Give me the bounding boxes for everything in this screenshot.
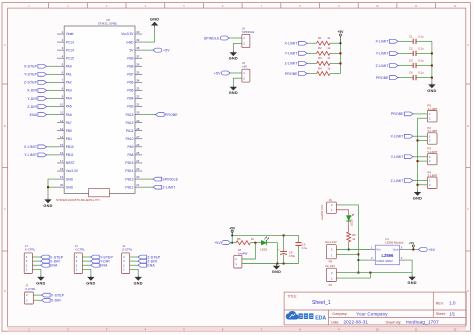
resistor R4 1k with PROBE netflag [285, 66, 341, 76]
svg-text:X-LIMIT: X-LIMIT [284, 42, 298, 46]
resistor R6 1k [347, 232, 357, 242]
node +5V netflag at U6 pin38 [142, 48, 170, 52]
svg-text:GND: GND [126, 40, 134, 44]
pin 10 PA5 U6 left [57, 103, 72, 109]
svg-text:Vin: Vin [376, 248, 380, 252]
wire J6 pin2 to ground [233, 43, 242, 51]
svg-text:25: 25 [136, 151, 140, 155]
connector J6 SPINDLE [242, 26, 254, 47]
svg-text:Y-LIMIT: Y-LIMIT [24, 153, 38, 157]
svg-text:19: 19 [60, 175, 64, 179]
pin 36 PB8 U6 right [127, 62, 142, 68]
wire P1 pin1 jog up [336, 273, 370, 279]
pin 32 PB4 U6 right [127, 95, 142, 101]
svg-text:R2: R2 [318, 46, 322, 50]
svg-text:15: 15 [60, 143, 64, 147]
svg-text:GND: GND [427, 89, 436, 93]
EasyEDA logo [286, 311, 327, 321]
svg-text:36: 36 [136, 62, 140, 66]
wire P6 pin2 to module Vin [336, 249, 369, 251]
svg-text:33: 33 [136, 87, 140, 91]
ground below limit connectors [413, 191, 422, 201]
pin 7 PA2 U6 left [57, 78, 72, 84]
wire bottom GND rail [242, 263, 299, 265]
svg-text:Vout: Vout [393, 248, 399, 252]
svg-text:Sheet:: Sheet: [436, 312, 446, 316]
svg-text:Y-DIR: Y-DIR [27, 97, 37, 101]
pin 1 U1 [370, 245, 376, 249]
wire R6 down to Vin rail [348, 242, 350, 251]
connector P3 Y-LIMIT [427, 147, 437, 165]
pin 14 PB1 U6 left [57, 135, 72, 141]
svg-text:Vout 24V: Vout 24V [325, 240, 337, 244]
svg-text:C4: C4 [409, 71, 413, 75]
svg-text:GND: GND [43, 204, 52, 208]
svg-text:PB3: PB3 [127, 105, 133, 109]
svg-text:STM32F103C8T6-BLUEPILL!!!!!!: STM32F103C8T6-BLUEPILL!!!!!! [56, 198, 100, 202]
wire U1 GND2 down to ground [405, 260, 412, 275]
wire P1 pin2 rail to module ground [336, 272, 412, 274]
pin 21 PB12 U6 right [125, 183, 142, 189]
node Y-DIR netflag at J2 [82, 259, 110, 263]
svg-text:Z-STEP: Z-STEP [24, 81, 38, 85]
svg-text:R1: R1 [318, 36, 322, 40]
svg-text:23: 23 [136, 167, 140, 171]
node ENA netflag at J4 [130, 263, 156, 267]
node X-STEP netflag at U6 [24, 64, 57, 68]
svg-text:1/1: 1/1 [449, 311, 455, 316]
svg-text:Z-LIMIT: Z-LIMIT [391, 179, 405, 183]
node SPINDLE netflag to J6 pin1 [204, 36, 242, 40]
pin 40 Vcc3.3V U6 right [121, 30, 142, 36]
connector P1 Vin 24V [325, 264, 336, 287]
svg-text:+: + [278, 247, 280, 251]
svg-text:31: 31 [136, 103, 140, 107]
svg-text:C2: C2 [409, 46, 413, 50]
wire +5V bus of resistor network [340, 36, 342, 73]
svg-text:Y-STEP: Y-STEP [24, 73, 37, 77]
ground below J4 [134, 276, 143, 286]
pin 9 PA4 U6 left [57, 95, 72, 101]
pin 33 PB5 U6 right [127, 87, 142, 93]
ground below J1 [36, 276, 45, 286]
svg-text:32: 32 [136, 95, 140, 99]
capacitor C5 0.1u [295, 235, 307, 263]
capacitor C6 470u electrolytic [278, 235, 296, 263]
svg-text:PA12: PA12 [126, 121, 134, 125]
resistor R2 1k with Y-LIMIT netflag [285, 46, 341, 56]
svg-text:SPINDLE: SPINDLE [242, 30, 254, 34]
svg-text:+5V: +5V [338, 30, 345, 34]
svg-text:PB5: PB5 [127, 89, 133, 93]
svg-text:P1: P1 [329, 283, 333, 287]
svg-text:PROBE: PROBE [165, 113, 178, 117]
svg-text:GND: GND [408, 281, 417, 285]
node PROBE netflag at U6 pin30 [142, 113, 178, 117]
svg-text:Sheet_1: Sheet_1 [312, 300, 331, 306]
svg-text:0.1u: 0.1u [418, 71, 424, 75]
wire P4 pin2 to GND bus [418, 184, 428, 186]
svg-text:PA10: PA10 [126, 137, 134, 141]
svg-text:38: 38 [136, 46, 140, 50]
node Y-LIMIT netflag at U6 [24, 153, 57, 157]
svg-text:PB14: PB14 [125, 169, 133, 173]
pin 37 PB9 U6 right [127, 54, 142, 60]
svg-text:Z-DIR: Z-DIR [27, 105, 37, 109]
svg-text:Date:: Date: [331, 320, 339, 324]
ground of LED circuit [272, 264, 281, 274]
power flag +5V above resistor network [338, 30, 345, 36]
pin 19 GND U6 left [57, 175, 74, 181]
wire J2 pin1 to ground [82, 269, 91, 275]
svg-text:PB9: PB9 [127, 56, 133, 60]
node Z-LIMIT netflag at U6 pin21 [142, 185, 176, 189]
svg-text:37: 37 [136, 54, 140, 58]
pin 17 NRST U6 left [57, 159, 75, 165]
LED LED2 [346, 214, 354, 226]
svg-text:0.1u: 0.1u [418, 59, 424, 63]
svg-text:GND: GND [229, 57, 238, 61]
pin 20 GND U6 left [57, 183, 74, 189]
ground below U6 [43, 198, 52, 208]
pin 12 PA7 U6 left [57, 119, 72, 125]
svg-text:PB11: PB11 [66, 153, 74, 157]
svg-text:PB6: PB6 [127, 81, 133, 85]
svg-text:LedPW 24V: LedPW 24V [320, 205, 324, 220]
svg-text:+5V: +5V [428, 248, 435, 252]
svg-text:GND: GND [413, 196, 422, 200]
svg-text:C1: C1 [409, 34, 413, 38]
svg-text:Y-LIMIT: Y-LIMIT [376, 52, 390, 56]
svg-text:0.1u: 0.1u [418, 34, 424, 38]
svg-text:29: 29 [136, 119, 140, 123]
svg-text:0.1u: 0.1u [302, 246, 308, 250]
svg-text:X-LIMIT: X-LIMIT [24, 145, 38, 149]
svg-text:ENA: ENA [147, 264, 155, 268]
svg-text:GND1 GND2: GND1 GND2 [376, 259, 393, 263]
ground below J6 [229, 51, 238, 61]
connector J7 X-CTRL [25, 284, 36, 304]
svg-text:SPINDLE: SPINDLE [162, 177, 178, 181]
svg-text:PB15: PB15 [125, 161, 133, 165]
svg-text:B: B [467, 124, 469, 128]
pin 23 PB14 U6 right [125, 167, 142, 173]
svg-text:GND: GND [150, 18, 159, 22]
pin 30 PA15 U6 right [126, 111, 143, 117]
pin 11 PA6 U6 left [57, 111, 72, 117]
pin 3 PC14 U6 left [57, 46, 74, 52]
wire U6 pin39 to top ground [142, 27, 154, 42]
node Y-STEP netflag at J2 [82, 255, 113, 259]
node X-DIR netflag at J7 [33, 298, 61, 302]
LED LED1 [260, 236, 269, 251]
svg-text:PA7: PA7 [66, 121, 72, 125]
wire top rail to C5/C6 [232, 234, 298, 236]
pin 13 PB0 U6 left [57, 127, 72, 133]
svg-text:PA3: PA3 [66, 89, 72, 93]
resistor R5 1k [236, 237, 255, 245]
pin 25 PA8 U6 right [128, 151, 143, 157]
svg-text:R4: R4 [318, 66, 322, 70]
svg-text:GND: GND [134, 281, 143, 285]
svg-text:PA2: PA2 [66, 81, 72, 85]
svg-text:GND: GND [66, 177, 74, 181]
svg-text:X-DIR: X-DIR [27, 89, 37, 93]
wire U1 Vout to +5V [405, 249, 418, 251]
svg-text:12: 12 [60, 119, 64, 123]
svg-text:PA0: PA0 [66, 64, 72, 68]
svg-text:0.1u: 0.1u [418, 46, 424, 50]
svg-text:Company:: Company: [332, 312, 348, 316]
connector P2 X-LIMIT [427, 126, 438, 144]
node Z-DIR netflag at J4 [130, 259, 158, 263]
svg-text:+5V: +5V [229, 226, 236, 230]
svg-text:PB13: PB13 [125, 177, 133, 181]
connector P4 Z-LIMIT [427, 170, 437, 188]
svg-text:PB1: PB1 [66, 137, 72, 141]
pin 4 PC15 U6 left [57, 54, 74, 60]
svg-text:ENA: ENA [50, 264, 58, 268]
svg-text:PC14: PC14 [66, 48, 74, 52]
pin 6 PA1 U6 left [57, 70, 72, 76]
svg-text:EDA: EDA [315, 315, 326, 321]
svg-text:L2596: L2596 [381, 253, 394, 258]
node ENA netflag at J1 [32, 263, 58, 267]
pin 18 Vcc3.3V U6 left [57, 167, 79, 173]
svg-text:PB12: PB12 [125, 185, 133, 189]
svg-text:L2596 Module: L2596 Module [385, 241, 404, 245]
connector J4 Z-CTRL [122, 244, 133, 274]
wire J8 pin2 up to LED net [242, 243, 256, 259]
node +5V netflag into LED circuit [214, 241, 236, 245]
svg-text:16: 16 [60, 151, 64, 155]
node X-LIMIT netflag to P2 pin1 [390, 134, 427, 138]
svg-text:REV:: REV: [436, 301, 444, 305]
svg-text:Z-LIMIT: Z-LIMIT [285, 62, 299, 66]
node +5V netflag at U1 output [418, 248, 435, 252]
ground below cap network [427, 83, 436, 93]
svg-text:C: C [467, 207, 469, 211]
resistor R1 1k with X-LIMIT netflag [284, 36, 340, 46]
node X-STEP netflag at J1 [32, 255, 63, 259]
svg-text:LED1: LED1 [260, 247, 267, 251]
svg-text:Y-CTRL: Y-CTRL [75, 248, 86, 252]
pin 39 GND U6 right [126, 38, 142, 44]
resistor R3 1k with Z-LIMIT netflag [285, 56, 341, 65]
svg-text:PROBE: PROBE [391, 112, 404, 116]
svg-text:1.0: 1.0 [449, 301, 456, 306]
wire J1 pin1 to ground [32, 269, 41, 275]
svg-text:PB10: PB10 [66, 145, 74, 149]
svg-text:Vcc3.3V: Vcc3.3V [66, 169, 79, 173]
svg-text:34: 34 [136, 78, 140, 82]
svg-text:PB8: PB8 [127, 64, 133, 68]
power flag +5V at U1 output [409, 241, 415, 250]
node Y-DIR netflag at U6 [27, 97, 57, 101]
svg-text:Z-LIMIT: Z-LIMIT [376, 64, 390, 68]
capacitor C2 0.1u with Y-LIMIT netflag [376, 46, 432, 56]
svg-text:GND: GND [86, 281, 95, 285]
svg-text:30: 30 [136, 111, 140, 115]
svg-text:PA5: PA5 [66, 105, 72, 109]
svg-text:PA8: PA8 [128, 153, 134, 157]
svg-text:Vbatt: Vbatt [66, 32, 74, 36]
connector P5 X-LIMIT [427, 104, 438, 122]
svg-text:11: 11 [60, 111, 63, 115]
svg-text:R3: R3 [318, 56, 322, 60]
svg-text:PA11: PA11 [126, 129, 134, 133]
svg-text:Your Company: Your Company [356, 312, 388, 317]
svg-text:+5V: +5V [242, 65, 247, 69]
svg-text:ENA: ENA [30, 113, 38, 117]
pin 38 5V U6 right [129, 46, 142, 52]
wire LED1 to GND rail [266, 243, 277, 264]
svg-text:X-DIR: X-DIR [51, 299, 61, 303]
node Z-DIR netflag at U6 [27, 105, 57, 109]
svg-text:+5V: +5V [214, 241, 221, 245]
svg-text:22: 22 [136, 175, 140, 179]
svg-text:Vin 24V: Vin 24V [325, 264, 335, 268]
pin 2 U1 [370, 256, 376, 260]
svg-text:mediuag_1707: mediuag_1707 [406, 320, 439, 325]
pin 8 PA3 U6 left [57, 87, 72, 93]
svg-text:ENA: ENA [100, 264, 108, 268]
svg-text:X-LIMIT: X-LIMIT [375, 40, 389, 44]
svg-text:+5V: +5V [163, 48, 170, 52]
svg-text:35: 35 [136, 70, 140, 74]
node X-DIR netflag at U6 [27, 89, 57, 93]
pin 2 PC13 U6 left [57, 38, 74, 44]
svg-text:D: D [4, 289, 6, 293]
wire GND bus of cap network [431, 41, 433, 83]
connector P6 Vout 24V [325, 240, 337, 263]
svg-text:18: 18 [60, 167, 64, 171]
svg-text:SPINDLE: SPINDLE [204, 36, 220, 40]
svg-text:PA6: PA6 [66, 113, 72, 117]
svg-text:17: 17 [60, 159, 64, 163]
node Z-STEP netflag at J4 [130, 255, 161, 259]
svg-text:Z-LIMIT: Z-LIMIT [162, 185, 176, 189]
svg-text:J9: J9 [329, 198, 332, 202]
svg-text:20: 20 [60, 183, 64, 187]
pin 16 PB11 U6 left [57, 151, 74, 157]
connector J8 LedPW [234, 248, 248, 268]
pin 27 PA10 U6 right [126, 135, 143, 141]
svg-text:D: D [467, 289, 469, 293]
wire J5 pin2 to ground [233, 78, 242, 85]
connector J1 X-CTRL [24, 244, 35, 274]
power flag +5V above R5 [229, 226, 236, 232]
pin 1 Vbatt U6 left [57, 30, 73, 36]
wire P5 pin2 to GND bus [418, 117, 428, 119]
op-amp U6 STM32_GRBL microcontroller [64, 18, 135, 197]
svg-text:Z-CTRL: Z-CTRL [122, 248, 133, 252]
svg-text:B: B [4, 124, 6, 128]
svg-text:470u: 470u [289, 254, 296, 258]
node Y-STEP netflag at U6 [24, 72, 57, 76]
pin 31 PB3 U6 right [127, 103, 142, 109]
wire +5V drop [231, 232, 233, 244]
svg-text:GND: GND [272, 270, 281, 274]
wire R5 to LED1 [250, 242, 261, 244]
svg-text:PA1: PA1 [66, 73, 72, 77]
svg-text:A: A [467, 43, 469, 47]
node Y-LIMIT netflag to P3 pin1 [391, 155, 428, 159]
svg-text:X-CTRL: X-CTRL [25, 287, 36, 291]
title block [284, 292, 466, 325]
svg-text:GND: GND [229, 91, 238, 95]
svg-text:X-LIMIT: X-LIMIT [390, 135, 404, 139]
svg-text:GND: GND [36, 281, 45, 285]
node +5V netflag to J5 pin1 [214, 71, 242, 75]
connector J5 +5V [242, 61, 250, 82]
svg-text:Y-LIMIT: Y-LIMIT [391, 155, 405, 159]
wire J4 pin1 to ground [130, 269, 139, 275]
svg-text:X-STEP: X-STEP [51, 293, 65, 297]
svg-text:PA9: PA9 [128, 145, 134, 149]
svg-text:LED2: LED2 [350, 219, 354, 226]
svg-text:C3: C3 [409, 59, 413, 63]
node X-DIR netflag at J1 [32, 259, 60, 263]
svg-text:39: 39 [136, 38, 140, 42]
pin 28 PA11 U6 right [126, 127, 142, 133]
pin 29 PA12 U6 right [126, 119, 143, 125]
svg-text:2022-08-31: 2022-08-31 [344, 320, 369, 325]
svg-text:Drawn By:: Drawn By: [386, 320, 402, 324]
svg-text:PROBE: PROBE [285, 72, 298, 76]
svg-text:+5V: +5V [214, 71, 221, 75]
svg-text:10: 10 [60, 103, 64, 107]
wire P2 pin2 to GND bus [418, 140, 428, 142]
node SPINDLE netflag at U6 pin22 [142, 177, 178, 181]
wire LED2 to R6 [348, 221, 350, 232]
svg-text:26: 26 [136, 143, 140, 147]
pin 35 PB7 U6 right [127, 70, 142, 76]
svg-text:PC15: PC15 [66, 56, 74, 60]
svg-text:40: 40 [136, 30, 140, 34]
svg-text:C: C [4, 207, 6, 211]
pin 24 PB15 U6 right [125, 159, 142, 165]
connector J2 Y-CTRL [74, 244, 85, 274]
svg-text:PA15: PA15 [126, 113, 134, 117]
svg-text:+5V: +5V [409, 241, 414, 245]
wire GND bus of limit connectors [417, 118, 419, 190]
wire module GND1 stub left [358, 259, 369, 261]
svg-text:28: 28 [136, 127, 140, 131]
capacitor C1 0.1u with X-LIMIT netflag [375, 34, 431, 44]
pin 5 PA0 U6 left [57, 62, 72, 68]
svg-text:27: 27 [136, 135, 140, 139]
svg-text:Y-LIMIT: Y-LIMIT [285, 52, 299, 56]
svg-text:14: 14 [60, 135, 64, 139]
wire J9 pin2 long vertical to GND/Vin- [336, 205, 359, 274]
node Z-STEP netflag at U6 [24, 80, 57, 84]
svg-text:X-STEP: X-STEP [24, 65, 38, 69]
svg-text:Vcc3.3V: Vcc3.3V [121, 32, 134, 36]
svg-text:A: A [4, 43, 6, 47]
svg-text:R5: R5 [237, 237, 241, 241]
pin 34 PB6 U6 right [127, 78, 142, 84]
svg-text:PA4: PA4 [66, 97, 72, 101]
svg-text:PC13: PC13 [66, 40, 74, 44]
svg-text:PB4: PB4 [127, 97, 133, 101]
op-amp U1 L2596 Module [375, 237, 404, 265]
node ENA netflag at J2 [82, 263, 108, 267]
node X-LIMIT netflag at U6 [24, 145, 57, 149]
pin 3 U1 [400, 256, 406, 260]
capacitor C4 0.1u with PROBE netflag [376, 71, 432, 81]
node ENA netflag at U6 [30, 113, 57, 117]
